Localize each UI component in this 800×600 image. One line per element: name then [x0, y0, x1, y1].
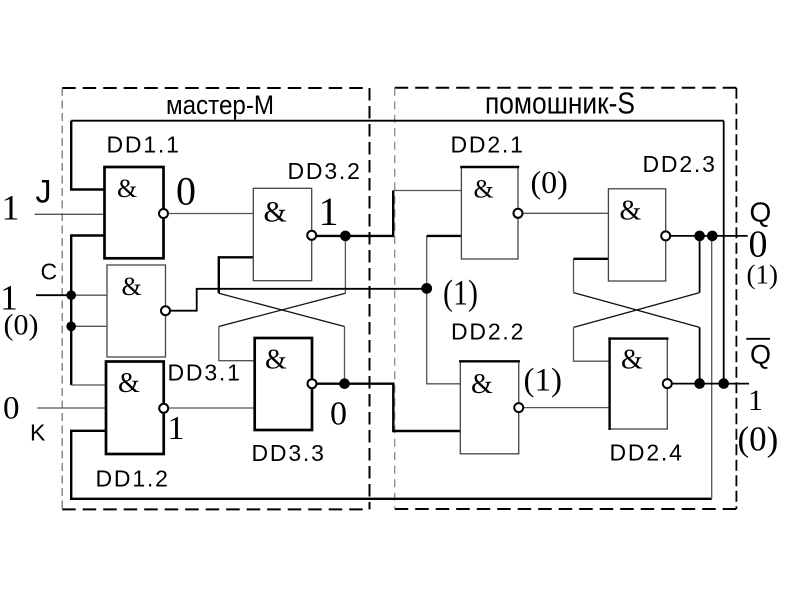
svg-text:&: &	[471, 369, 493, 400]
wire Qbar output	[667, 383, 749, 385]
wire stub DD2.1 input 2	[427, 235, 462, 237]
wire DD3.2 cross-coupling down	[344, 236, 346, 293]
wire DD2.1 output to DD2.3	[518, 212, 608, 214]
junction dot C node	[66, 290, 76, 300]
wire into DD3.2 input 2	[219, 257, 254, 293]
wire into DD3.3 input 1	[219, 327, 255, 361]
inversion bubble DD2.3	[661, 231, 670, 240]
wire K input	[37, 407, 106, 409]
wire cross diagonal DD3.3 to DD3.2	[219, 293, 345, 326]
wire into DD2.3 input 2	[573, 259, 575, 293]
junction dot Q node 2	[707, 231, 718, 242]
wire inverted clock to DD2.1 input 2	[426, 236, 428, 289]
svg-text:1: 1	[2, 188, 20, 228]
wire C to DD1.2 input 1	[71, 384, 106, 386]
svg-text:&: &	[474, 175, 494, 204]
svg-text:(1): (1)	[524, 363, 562, 399]
wire stub DD2.3 input 2	[574, 258, 609, 260]
svg-text:1: 1	[748, 384, 763, 417]
junction dot inverted clock node	[421, 283, 432, 294]
svg-text:1: 1	[168, 410, 185, 447]
svg-text:&: &	[118, 368, 140, 399]
NAND gate DD2.3	[608, 189, 665, 281]
svg-text:&: &	[621, 345, 643, 376]
wire DD3.2 output	[312, 191, 394, 236]
junction dot Q node 1	[694, 231, 705, 242]
svg-text:DD1.1: DD1.1	[107, 132, 181, 158]
inversion bubble DD2.4	[663, 379, 672, 388]
svg-text:&: &	[265, 345, 287, 376]
inversion bubble DD3.2	[307, 231, 316, 240]
svg-text:DD2.1: DD2.1	[451, 132, 525, 158]
inversion bubble DD2.1	[514, 209, 523, 218]
wire step to DD2.1 input 1	[393, 190, 461, 192]
svg-text:&: &	[122, 272, 142, 301]
wire DD3.3 cross-coupling up	[344, 327, 346, 384]
svg-text:DD1.2: DD1.2	[96, 466, 170, 492]
wire cross diagonal DD3.2 to DD3.3	[219, 293, 346, 326]
svg-text:Q: Q	[750, 340, 771, 370]
svg-text:0: 0	[3, 391, 20, 427]
svg-text:DD3.3: DD3.3	[252, 440, 326, 466]
svg-text:DD2.2: DD2.2	[451, 319, 525, 345]
NAND gate DD3.1 (clock inverter)	[107, 265, 166, 357]
wire inverted clock to DD2.2 input 1	[427, 288, 461, 383]
wire Qbar cross-coupling up	[699, 327, 701, 383]
wire feedback into DD1.1 input 1	[71, 121, 104, 190]
inversion bubble DD2.2	[514, 403, 523, 412]
svg-text:помошник-S: помошник-S	[485, 86, 635, 121]
junction dot C node 2	[66, 322, 76, 332]
svg-text:0: 0	[330, 396, 347, 433]
svg-text:0: 0	[176, 169, 196, 214]
svg-text:(1): (1)	[443, 273, 478, 313]
wire cross diagonal Q to DD2.4	[574, 293, 700, 328]
inversion bubble DD1.1	[159, 209, 168, 218]
svg-text:(0): (0)	[738, 420, 779, 459]
inversion bubble DD1.2	[159, 404, 168, 413]
wire DD1.2 output to DD3.3	[164, 407, 255, 409]
svg-text:(0): (0)	[4, 309, 39, 342]
svg-text:&: &	[620, 196, 642, 227]
junction dot DD3.3 output node	[339, 378, 350, 389]
junction dot Qbar node 2	[718, 378, 729, 389]
svg-text:C: C	[41, 259, 58, 285]
svg-text:J: J	[36, 174, 52, 210]
wire Qbar feedback right vertical	[723, 121, 725, 382]
wire Qbar feedback top line	[71, 120, 724, 122]
wire DD3.3 output to DD2.2	[312, 384, 460, 431]
wire C input	[36, 294, 71, 296]
svg-text:DD3.2: DD3.2	[288, 158, 362, 184]
NAND gate DD2.1	[460, 167, 519, 259]
wire Q cross-coupling down	[699, 236, 701, 293]
wire DD1.1 output to DD3.2	[164, 213, 254, 215]
NAND gate DD3.3	[255, 338, 312, 430]
wire cross diagonal Qbar to DD2.3	[574, 293, 700, 328]
svg-text:DD2.4: DD2.4	[610, 440, 684, 466]
wire DD3.1 inverter output	[170, 289, 427, 311]
inversion bubble DD3.1	[161, 306, 170, 315]
wire C vertical bus	[71, 236, 104, 386]
wire into DD2.4 input 1	[574, 327, 610, 361]
NAND gate DD2.2	[459, 361, 520, 454]
svg-text:DD3.1: DD3.1	[168, 360, 242, 386]
svg-text:DD2.3: DD2.3	[643, 151, 717, 177]
wire Q feedback bottom line into DD1.2 input 3	[71, 431, 712, 499]
label Qbar	[746, 339, 771, 370]
svg-text:&: &	[117, 174, 137, 203]
slave region dashed box	[395, 88, 737, 509]
svg-text:(1): (1)	[747, 260, 778, 290]
junction dot DD3.2 output node	[340, 231, 351, 242]
wire Q output	[666, 235, 748, 237]
svg-text:мастер-М: мастер-М	[166, 90, 274, 120]
NAND gate DD2.4	[608, 337, 668, 430]
svg-text:(0): (0)	[531, 164, 568, 200]
svg-text:K: K	[30, 420, 46, 446]
wire J input	[35, 213, 105, 215]
wire DD2.2 output to DD2.4	[519, 407, 610, 409]
wire C into DD3.1 input 2	[71, 325, 107, 327]
master region dashed box	[62, 88, 369, 509]
wire C into DD3.1 input 1	[71, 294, 107, 296]
svg-text:1: 1	[319, 189, 339, 234]
svg-text:&: &	[264, 196, 287, 229]
inversion bubble DD3.3	[308, 379, 317, 388]
NAND gate DD1.2	[106, 362, 164, 455]
NAND gate DD1.1	[105, 167, 164, 258]
wire Q feedback vertical	[711, 236, 713, 499]
junction dot Qbar node 1	[694, 378, 705, 389]
NAND gate DD3.2	[253, 188, 311, 280]
